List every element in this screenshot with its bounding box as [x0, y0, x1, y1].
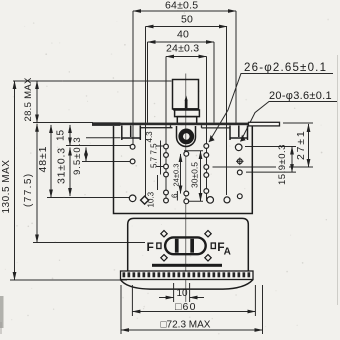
dim 15 left [56, 125, 71, 146]
scan smudge left edge [0, 296, 4, 334]
svg-text:30±0.5: 30±0.5 [190, 162, 200, 188]
dim 6 ticks [176, 191, 178, 201]
letter F left [147, 240, 154, 254]
svg-text:□72.3 MAX: □72.3 MAX [161, 320, 211, 331]
svg-text:50: 50 [181, 14, 193, 26]
label 7.5 [150, 143, 159, 155]
leader 26-φ2.65±0.1 [209, 62, 333, 142]
label 4.3 [145, 131, 154, 143]
left extension dial bottom [10, 279, 127, 281]
oval window [165, 237, 206, 254]
holes column x=239 [235, 144, 242, 199]
flange teeth right group [230, 126, 248, 141]
leader 20-φ3.6±0.1 [241, 90, 338, 142]
svg-text:64±0.5: 64±0.5 [165, 0, 198, 12]
scan streak right edge [337, 55, 339, 305]
center axis line [185, 74, 187, 303]
svg-text:□60: □60 [175, 301, 197, 313]
svg-text:4.3: 4.3 [145, 131, 154, 143]
svg-text:(77.5): (77.5) [23, 172, 34, 207]
dim 27±1 right [295, 124, 309, 167]
extension lines from top dims [133, 11, 236, 201]
left extension row4 [47, 197, 129, 199]
dim 10 bottom [159, 283, 204, 302]
svg-text:9.5±0.3: 9.5±0.3 [72, 136, 83, 175]
svg-text:130.5 MAX: 130.5 MAX [1, 160, 12, 214]
ext tick row167 [213, 166, 314, 168]
svg-text:24±0.3: 24±0.3 [166, 43, 199, 55]
svg-text:5.7: 5.7 [150, 156, 159, 168]
dim 130.5 MAX left [1, 81, 15, 280]
cross mark on hole [236, 158, 244, 166]
left extension dial axis [33, 242, 145, 244]
left extension row1 [66, 145, 130, 147]
dim 15.9±0.3 right [277, 144, 292, 185]
small square left [157, 243, 161, 249]
small dim ticks 4.3/7.5/5.7 column [157, 141, 165, 175]
label 5.7 [150, 156, 159, 168]
letters FA right [217, 240, 231, 258]
hole big x=210 bottom [207, 197, 214, 204]
flange plate [92, 122, 280, 128]
label 6 [171, 193, 180, 198]
right extension flange top [283, 122, 313, 124]
left extension line shaft top level [13, 80, 172, 82]
dial bottom arc [121, 280, 253, 289]
dim 64±0.5 top [133, 0, 236, 12]
right extension row1 [245, 146, 296, 148]
dim 50 top [146, 14, 228, 27]
svg-text:20-φ3.6±0.1: 20-φ3.6±0.1 [269, 90, 332, 102]
left extension row 137.8 [86, 137, 121, 139]
slot bar above knurl [152, 264, 222, 267]
holes column x=132.6 [129, 144, 136, 201]
diamonds around oval [161, 231, 211, 262]
hole x=227 bottom [224, 197, 230, 203]
dim □72.3 MAX bottom [121, 285, 263, 334]
lower body rounded [128, 218, 249, 271]
svg-text:10: 10 [177, 288, 189, 299]
svg-text:27±1: 27±1 [295, 130, 307, 160]
dim 24±0.3 inner [172, 154, 181, 194]
svg-text:28.5 MAX: 28.5 MAX [23, 77, 34, 121]
dim □60 bottom [132, 285, 255, 316]
diamond hole [141, 196, 149, 204]
knurl ticks [123, 272, 251, 277]
holes column center [184, 151, 189, 203]
svg-text:48±1: 48±1 [37, 146, 49, 173]
svg-text:6: 6 [171, 193, 180, 198]
dim 24±0.3 top [166, 43, 207, 57]
svg-text:31±0.3: 31±0.3 [56, 147, 68, 184]
dim 10.3 ticks [157, 175, 159, 190]
svg-text:26-φ2.65±0.1: 26-φ2.65±0.1 [244, 62, 327, 74]
small square right [211, 243, 215, 249]
dim 28.5 MAX left [23, 77, 37, 122]
shaft collar [175, 110, 200, 124]
svg-text:15: 15 [56, 129, 67, 141]
shaft housing box [173, 80, 199, 110]
svg-text:15.9±0.3: 15.9±0.3 [277, 144, 288, 185]
shaft pin [185, 96, 188, 109]
knurl band [121, 271, 254, 280]
svg-text:F: F [147, 240, 154, 254]
left extension row2 [82, 161, 130, 163]
svg-text:40: 40 [177, 29, 189, 41]
svg-text:7.5: 7.5 [150, 143, 159, 155]
oval slot bars [175, 239, 194, 253]
svg-text:24±0.3: 24±0.3 [172, 164, 181, 187]
svg-text:A: A [224, 247, 231, 258]
dim 9.5±0.3 left [72, 136, 86, 175]
holes column x=206.5 [204, 144, 209, 194]
right extension row3 [246, 171, 296, 173]
holes column x=166 [164, 144, 169, 203]
dim 31±0.3 left [56, 147, 71, 196]
flange teeth left group [122, 126, 141, 141]
left extension line flange top [33, 122, 93, 124]
dim (77.5) left [23, 124, 37, 243]
shaft bushing boss with ring [177, 126, 196, 147]
dim 40 top [148, 29, 215, 43]
dim 30±0.5 inner [184, 151, 203, 202]
label 10.3 [147, 191, 156, 207]
body outline [114, 126, 253, 214]
dim 48±1 left [37, 125, 51, 198]
